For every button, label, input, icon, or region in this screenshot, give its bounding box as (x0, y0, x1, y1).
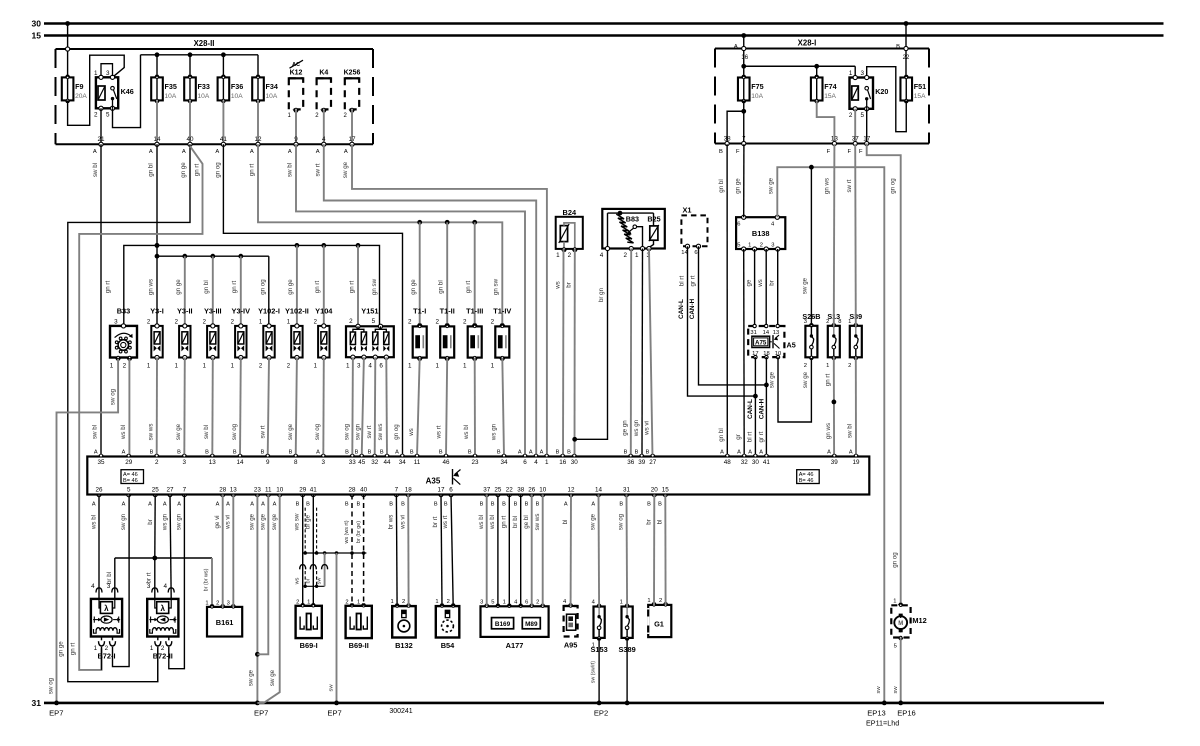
svg-text:2: 2 (848, 363, 851, 369)
svg-text:B: B (525, 501, 529, 507)
svg-text:1: 1 (635, 252, 639, 259)
svg-text:A: A (148, 501, 152, 507)
svg-text:F: F (859, 149, 863, 155)
svg-text:B83: B83 (626, 214, 639, 223)
svg-text:2: 2 (349, 318, 353, 325)
svg-text:39: 39 (831, 459, 839, 466)
svg-text:gn ws: gn ws (147, 279, 154, 295)
svg-text:2: 2 (296, 599, 299, 605)
svg-text:22: 22 (506, 486, 514, 493)
svg-text:sw og: sw og (618, 513, 625, 530)
svg-text:B: B (439, 450, 443, 456)
svg-text:B54: B54 (441, 641, 455, 650)
svg-text:10A: 10A (165, 93, 177, 100)
svg-text:1: 1 (307, 599, 310, 605)
svg-text:sw bl: sw bl (287, 163, 294, 177)
svg-text:sw rt: sw rt (366, 425, 373, 438)
svg-text:5: 5 (372, 318, 376, 325)
svg-text:A: A (215, 149, 219, 155)
svg-text:5: 5 (106, 112, 110, 119)
svg-text:B: B (556, 450, 560, 456)
svg-text:ws vi: ws vi (225, 515, 232, 530)
svg-text:gn rt: gn rt (69, 643, 76, 656)
svg-text:br: br (769, 280, 776, 286)
svg-text:gn rt: gn rt (501, 516, 508, 529)
svg-text:B: B (345, 450, 349, 456)
svg-text:sw ws: sw ws (377, 424, 384, 441)
svg-text:sw ge: sw ge (175, 423, 182, 440)
svg-text:15: 15 (662, 486, 670, 493)
svg-text:ws gn: ws gn (491, 423, 498, 441)
svg-text:2: 2 (760, 243, 763, 249)
svg-text:2: 2 (408, 318, 412, 325)
svg-text:41: 41 (763, 459, 771, 466)
svg-text:CAN-H: CAN-H (758, 398, 765, 419)
svg-text:br gn: br gn (598, 287, 605, 302)
svg-text:A: A (182, 149, 186, 155)
svg-text:2: 2 (402, 599, 405, 605)
svg-text:A: A (591, 501, 595, 507)
svg-text:44: 44 (383, 459, 391, 466)
svg-text:40: 40 (360, 486, 368, 493)
svg-text:41: 41 (310, 486, 318, 493)
svg-text:gn og: gn og (393, 424, 400, 440)
svg-text:1: 1 (150, 645, 154, 652)
svg-text:sw ge: sw ge (287, 423, 294, 440)
svg-text:sw gn: sw gn (354, 423, 361, 440)
svg-text:Y104: Y104 (315, 307, 333, 316)
svg-text:3: 3 (771, 243, 774, 249)
svg-text:CAN-L: CAN-L (678, 299, 685, 319)
svg-text:sw ge: sw ge (769, 371, 776, 388)
svg-text:1: 1 (545, 459, 549, 466)
svg-text:14: 14 (763, 330, 770, 336)
svg-text:br: br (646, 519, 653, 525)
svg-text:ws gn: ws gn (161, 513, 168, 531)
svg-text:A: A (177, 501, 181, 507)
svg-text:19: 19 (852, 459, 860, 466)
svg-text:A: A (316, 149, 320, 155)
svg-text:4: 4 (600, 252, 604, 259)
svg-text:6: 6 (523, 459, 527, 466)
svg-text:27: 27 (166, 486, 174, 493)
svg-text:1: 1 (110, 362, 114, 369)
svg-text:B: B (389, 501, 393, 507)
svg-text:A: A (261, 501, 265, 507)
svg-text:gn ge: gn ge (410, 279, 417, 295)
svg-text:38: 38 (517, 486, 525, 493)
svg-text:1: 1 (435, 362, 439, 369)
svg-text:10A: 10A (198, 93, 210, 100)
svg-text:EP13: EP13 (867, 708, 886, 717)
svg-text:7: 7 (395, 486, 399, 493)
svg-text:F51: F51 (914, 82, 926, 91)
svg-text:32: 32 (371, 459, 379, 466)
svg-text:ge: ge (746, 279, 753, 286)
svg-text:32: 32 (741, 459, 749, 466)
svg-text:sw og: sw og (47, 677, 54, 694)
svg-text:ws: ws (295, 577, 301, 585)
svg-text:A: A (250, 501, 254, 507)
svg-text:T1-II: T1-II (440, 307, 455, 316)
svg-text:CAN-H: CAN-H (689, 298, 696, 319)
svg-text:sw: sw (328, 684, 334, 692)
svg-text:ws bl: ws bl (90, 515, 97, 530)
svg-text:3: 3 (183, 459, 187, 466)
svg-text:G1: G1 (654, 619, 664, 628)
svg-text:B161: B161 (216, 618, 234, 627)
svg-text:gn sw: gn sw (371, 278, 378, 295)
svg-text:Y102-I: Y102-I (258, 307, 280, 316)
svg-text:bl: bl (562, 520, 569, 525)
svg-text:B: B (355, 450, 359, 456)
svg-text:gn ws: gn ws (825, 423, 832, 439)
svg-text:1: 1 (647, 598, 650, 604)
svg-text:K20: K20 (875, 87, 888, 96)
svg-text:gn ge: gn ge (175, 279, 182, 295)
svg-text:3: 3 (860, 70, 864, 77)
svg-text:39: 39 (638, 459, 646, 466)
svg-text:A: A (734, 44, 738, 50)
svg-text:Y151: Y151 (361, 307, 378, 316)
svg-text:46: 46 (442, 459, 450, 466)
svg-text:λ: λ (104, 604, 109, 613)
svg-text:30: 30 (752, 459, 760, 466)
svg-text:EP7: EP7 (49, 708, 63, 717)
svg-text:3: 3 (106, 70, 110, 77)
svg-text:A75: A75 (755, 339, 767, 346)
svg-text:ge vi: ge vi (214, 515, 221, 528)
svg-text:B: B (380, 450, 384, 456)
svg-text:sw ge: sw ge (249, 513, 256, 530)
svg-text:B: B (410, 450, 414, 456)
svg-text:30: 30 (32, 19, 42, 29)
svg-text:gn rt: gn rt (348, 281, 355, 294)
svg-text:35: 35 (97, 459, 105, 466)
svg-text:B69-II: B69-II (349, 641, 369, 650)
svg-text:A5: A5 (787, 341, 796, 350)
svg-text:gn og: gn og (215, 162, 222, 178)
svg-text:14: 14 (236, 459, 244, 466)
svg-text:B: B (514, 501, 518, 507)
svg-text:1: 1 (491, 362, 495, 369)
svg-text:B: B (480, 501, 484, 507)
svg-text:ws: ws (757, 279, 764, 288)
svg-text:A: A (827, 450, 831, 456)
svg-text:1: 1 (463, 362, 467, 369)
svg-text:ws bl: ws bl (463, 425, 470, 440)
svg-text:B: B (296, 501, 300, 507)
svg-text:10A: 10A (751, 93, 763, 100)
svg-text:1: 1 (748, 243, 751, 249)
svg-text:F: F (827, 149, 831, 155)
svg-text:gn ge: gn ge (180, 162, 187, 178)
svg-text:ws sw: ws sw (294, 513, 301, 531)
svg-text:sw bl: sw bl (847, 424, 854, 438)
svg-text:F33: F33 (198, 82, 210, 91)
svg-text:4: 4 (534, 459, 538, 466)
svg-text:10A: 10A (266, 93, 278, 100)
svg-text:A: A (122, 501, 126, 507)
svg-text:ws vi: ws vi (399, 515, 406, 530)
svg-text:ws: ws (555, 281, 562, 290)
svg-text:gn bl: gn bl (718, 179, 725, 192)
svg-text:20A: 20A (75, 93, 87, 100)
svg-text:sw ge: sw ge (271, 513, 278, 530)
svg-text:gn sw: gn sw (493, 278, 500, 295)
svg-text:sw ge: sw ge (801, 277, 808, 294)
svg-text:1: 1 (848, 319, 851, 325)
svg-text:B= 46: B= 46 (123, 478, 138, 484)
svg-text:6: 6 (525, 599, 528, 605)
svg-text:br: br (306, 578, 312, 583)
svg-text:gn bl: gn bl (438, 280, 445, 293)
svg-text:9: 9 (266, 459, 270, 466)
svg-text:sw rt: sw rt (314, 163, 321, 176)
svg-text:gn rt: gn rt (465, 281, 472, 294)
svg-text:gn ge: gn ge (735, 178, 742, 194)
svg-text:M12: M12 (912, 616, 926, 625)
svg-text:sw og: sw og (109, 388, 116, 405)
svg-text:B: B (177, 450, 181, 456)
svg-text:A: A (288, 149, 292, 155)
svg-text:4: 4 (91, 583, 95, 590)
svg-text:5: 5 (491, 599, 494, 605)
svg-text:M: M (898, 621, 903, 627)
svg-text:27: 27 (649, 459, 657, 466)
svg-text:1: 1 (357, 599, 360, 605)
svg-text:5: 5 (894, 644, 897, 650)
svg-text:B: B (497, 450, 501, 456)
svg-text:br ws: br ws (388, 515, 395, 530)
svg-text:br (br ge): br (br ge) (356, 521, 362, 543)
svg-text:sw ge: sw ge (590, 513, 597, 530)
svg-text:A: A (748, 450, 752, 456)
svg-text:B: B (261, 450, 265, 456)
svg-text:28: 28 (219, 486, 227, 493)
svg-text:br rt: br rt (145, 572, 152, 583)
svg-text:sw og: sw og (314, 423, 321, 440)
svg-text:sw ge: sw ge (269, 669, 276, 686)
svg-text:sw rt: sw rt (259, 425, 266, 438)
svg-text:2: 2 (536, 599, 539, 605)
svg-text:B: B (356, 501, 360, 507)
svg-text:ws vi: ws vi (644, 421, 651, 436)
svg-text:B: B (444, 501, 448, 507)
svg-text:sw ge: sw ge (248, 669, 255, 686)
svg-text:2: 2 (435, 318, 439, 325)
svg-text:gn og: gn og (889, 178, 896, 194)
svg-text:3: 3 (357, 362, 361, 369)
svg-text:6: 6 (694, 250, 697, 256)
svg-text:B: B (647, 501, 651, 507)
svg-text:B: B (624, 450, 628, 456)
svg-text:31: 31 (750, 330, 756, 336)
svg-text:4: 4 (163, 583, 167, 590)
svg-text:K12: K12 (290, 70, 303, 77)
svg-text:A: A (226, 501, 230, 507)
svg-text:B: B (896, 44, 900, 50)
svg-text:K46: K46 (121, 87, 134, 96)
svg-text:ws: ws (408, 428, 415, 437)
svg-text:EP16: EP16 (897, 708, 916, 717)
svg-text:B: B (468, 450, 472, 456)
svg-text:A: A (395, 450, 399, 456)
svg-text:gn ws: gn ws (823, 178, 830, 194)
svg-text:B: B (658, 501, 662, 507)
svg-text:26: 26 (528, 486, 536, 493)
svg-text:A: A (93, 149, 97, 155)
svg-text:T1-I: T1-I (413, 307, 426, 316)
svg-text:B: B (635, 450, 639, 456)
svg-text:22: 22 (903, 55, 910, 61)
svg-text:sw ge: sw ge (768, 177, 775, 194)
svg-text:gn rt: gn rt (314, 281, 321, 294)
svg-text:20: 20 (651, 486, 659, 493)
svg-text:13: 13 (209, 459, 217, 466)
svg-text:sw gn: sw gn (176, 513, 183, 530)
svg-text:2: 2 (491, 318, 495, 325)
svg-text:A: A (216, 501, 220, 507)
svg-text:A: A (149, 149, 153, 155)
svg-text:sw bl: sw bl (92, 425, 99, 439)
svg-text:4: 4 (368, 362, 372, 369)
svg-text:36: 36 (627, 459, 635, 466)
svg-text:2: 2 (463, 318, 467, 325)
svg-text:17: 17 (437, 486, 445, 493)
svg-text:29: 29 (299, 486, 307, 493)
svg-text:33: 33 (349, 459, 357, 466)
svg-text:λ: λ (160, 604, 165, 613)
svg-text:X28-II: X28-II (194, 39, 215, 48)
svg-text:2: 2 (447, 599, 450, 605)
svg-text:1: 1 (893, 599, 896, 605)
svg-text:ws (ws rt): ws (ws rt) (344, 520, 350, 544)
svg-text:Y3-IV: Y3-IV (232, 307, 251, 316)
svg-text:br bl: br bl (512, 516, 519, 528)
svg-text:A: A (316, 450, 320, 456)
svg-text:B: B (205, 450, 209, 456)
svg-text:ge gn: ge gn (622, 420, 629, 436)
svg-text:1: 1 (826, 363, 829, 369)
svg-text:A177: A177 (506, 641, 524, 650)
svg-text:sw ws: sw ws (534, 514, 541, 531)
svg-text:6: 6 (449, 486, 453, 493)
svg-text:sw ge: sw ge (342, 161, 349, 178)
svg-text:1: 1 (205, 600, 208, 606)
svg-text:B= 46: B= 46 (799, 478, 814, 484)
svg-text:2: 2 (123, 362, 127, 369)
svg-text:EP7: EP7 (327, 708, 341, 717)
svg-text:B69-I: B69-I (300, 641, 318, 650)
svg-text:26: 26 (95, 486, 103, 493)
svg-text:2: 2 (659, 598, 662, 604)
svg-text:3: 3 (480, 599, 483, 605)
svg-text:B72-II: B72-II (153, 652, 173, 661)
svg-text:2: 2 (826, 319, 829, 325)
svg-text:2: 2 (161, 645, 165, 652)
svg-text:A95: A95 (564, 640, 578, 649)
svg-text:B: B (434, 501, 438, 507)
svg-text:B: B (233, 450, 237, 456)
svg-text:gn og: gn og (259, 279, 266, 295)
svg-text:1: 1 (620, 600, 623, 606)
svg-text:ws gn: ws gn (633, 419, 640, 437)
svg-text:Y3-III: Y3-III (204, 307, 222, 316)
svg-text:B: B (368, 450, 372, 456)
svg-text:7: 7 (183, 486, 187, 493)
svg-text:A35: A35 (426, 477, 441, 486)
svg-text:gn bl: gn bl (148, 163, 155, 176)
svg-text:A: A (163, 501, 167, 507)
svg-text:8: 8 (294, 459, 298, 466)
svg-text:1: 1 (556, 252, 560, 259)
svg-text:Y102-II: Y102-II (285, 307, 309, 316)
svg-text:28: 28 (348, 486, 356, 493)
svg-text:F74: F74 (824, 82, 836, 91)
svg-text:3: 3 (804, 319, 807, 325)
svg-text:B: B (536, 501, 540, 507)
svg-text:1: 1 (435, 599, 438, 605)
svg-text:12: 12 (567, 486, 575, 493)
svg-text:30: 30 (571, 459, 579, 466)
svg-text:10: 10 (276, 486, 284, 493)
svg-text:6: 6 (737, 221, 740, 227)
svg-text:29: 29 (125, 459, 133, 466)
svg-text:B: B (619, 501, 623, 507)
svg-text:A: A (759, 450, 763, 456)
svg-text:1: 1 (408, 362, 412, 369)
svg-text:34: 34 (399, 459, 407, 466)
svg-text:X28-I: X28-I (798, 39, 817, 48)
svg-text:1: 1 (503, 599, 506, 605)
svg-text:A: A (122, 450, 126, 456)
svg-text:37: 37 (483, 486, 491, 493)
svg-text:B: B (289, 450, 293, 456)
svg-text:B: B (491, 501, 495, 507)
svg-text:5: 5 (860, 112, 864, 119)
svg-text:br bl: br bl (106, 572, 113, 584)
svg-text:B: B (502, 501, 506, 507)
svg-text:B: B (401, 501, 405, 507)
svg-text:F75: F75 (751, 82, 763, 91)
svg-text:25: 25 (152, 486, 160, 493)
svg-text:2: 2 (216, 600, 219, 606)
svg-text:gn rt: gn rt (231, 281, 238, 294)
svg-text:B169: B169 (495, 621, 511, 628)
svg-text:2: 2 (568, 252, 572, 259)
svg-text:A: A (273, 501, 277, 507)
svg-text:br: br (566, 282, 573, 288)
svg-text:A: A (529, 450, 533, 456)
svg-text:T1-III: T1-III (466, 307, 483, 316)
svg-text:2: 2 (94, 112, 98, 119)
svg-text:2: 2 (623, 252, 627, 259)
svg-text:sw ge: sw ge (260, 513, 267, 530)
svg-text:F34: F34 (266, 82, 278, 91)
svg-text:F35: F35 (165, 82, 177, 91)
svg-text:A: A (250, 149, 254, 155)
svg-text:B: B (306, 501, 310, 507)
svg-text:ws rt: ws rt (436, 425, 443, 439)
svg-text:16: 16 (559, 459, 567, 466)
svg-text:13: 13 (773, 330, 779, 336)
svg-text:23: 23 (254, 486, 262, 493)
svg-text:11: 11 (265, 486, 272, 493)
svg-text:6: 6 (379, 362, 383, 369)
svg-text:18: 18 (405, 486, 413, 493)
svg-text:sw og: sw og (231, 423, 238, 440)
